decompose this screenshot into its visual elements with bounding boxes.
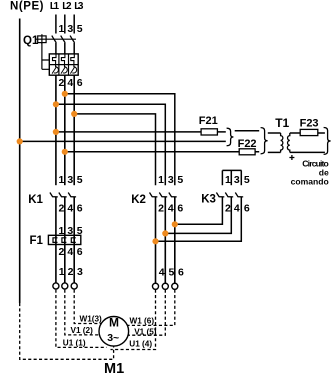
Q1 contact pole 2 — [61, 36, 65, 43]
wire K2 pole2 out — [164, 197, 166, 283]
terminal circle 6 — [172, 283, 178, 289]
svg-text:5: 5 — [244, 174, 250, 186]
fuse F22 — [239, 149, 255, 155]
wire K1 pole3 out — [73, 197, 75, 283]
wire phase3 vertical — [73, 75, 75, 185]
wire tap phase1 to K2 pole2 — [56, 104, 165, 185]
Q1 operator drop — [42, 43, 49, 70]
wire control top segment — [235, 130, 260, 132]
svg-text:K2: K2 — [131, 194, 146, 206]
wire K2 pole1 out — [155, 197, 157, 283]
svg-text:3: 3 — [77, 266, 83, 278]
K1 contact pole 1 — [50, 193, 58, 197]
brace control option 1 — [227, 128, 234, 146]
Q1 operator box — [38, 36, 46, 43]
wire L2 drop — [64, 15, 66, 34]
wire K2 pole3 out — [174, 197, 176, 283]
K2 contact pole 1 — [150, 193, 158, 197]
cable W1(3) — [74, 290, 101, 324]
svg-text:1: 1 — [59, 266, 65, 278]
svg-text:6: 6 — [77, 246, 83, 258]
wire T1 secondary bottom — [290, 151, 325, 153]
svg-text:W1 (6): W1 (6) — [130, 316, 155, 325]
wire T1 secondary top — [290, 132, 325, 134]
svg-text:5: 5 — [77, 174, 83, 186]
cable PE to motor — [20, 303, 114, 359]
K1 contact pole 2 — [59, 193, 67, 197]
svg-text:5: 5 — [177, 174, 183, 186]
wire K3 stub 1 — [221, 170, 223, 185]
svg-text:1: 1 — [59, 23, 65, 35]
wire Q1 pole3 to release — [73, 43, 75, 54]
wire phase2 to F22 — [65, 151, 259, 153]
K3 contact pole 2 — [225, 193, 233, 197]
wire phase1 vertical — [55, 75, 57, 185]
Q1 thermal release pole 1 — [53, 54, 57, 67]
node N tap — [17, 138, 23, 144]
F1 heater element 1 — [53, 238, 58, 243]
wire K3 pole2 to K2 — [165, 197, 231, 234]
node K2-K3 junction b — [162, 230, 168, 236]
svg-text:K1: K1 — [28, 194, 43, 206]
svg-text:F22: F22 — [238, 138, 257, 150]
wire L1 drop — [55, 15, 57, 34]
svg-text:L1: L1 — [50, 1, 60, 12]
transformer T1 secondary coil — [287, 133, 289, 152]
wire T1 primary bottom — [268, 151, 281, 153]
wire Q1 pole2 to release — [64, 43, 66, 54]
svg-text:N(PE): N(PE) — [10, 0, 44, 12]
wire Q1 pole1 to release — [55, 43, 57, 54]
svg-text:V1 (2): V1 (2) — [71, 326, 94, 335]
node K2-K3 junction c — [152, 238, 158, 244]
terminal circle 1 — [53, 283, 59, 289]
wire L3 drop — [73, 15, 75, 34]
wire phase1 to F21 — [56, 131, 226, 133]
Q1 contact pole 3 — [70, 36, 75, 43]
K2 contact pole 2 — [159, 193, 167, 197]
overload relay F1 box — [48, 235, 80, 244]
svg-text:W1(3): W1(3) — [80, 314, 103, 323]
cable U1(4) — [111, 290, 156, 350]
wire N to control — [20, 140, 226, 142]
svg-text:3: 3 — [168, 174, 174, 186]
wire K1 pole1 out — [55, 197, 57, 283]
svg-text:2: 2 — [225, 202, 231, 214]
svg-text:5: 5 — [77, 23, 83, 35]
cable V1(2) — [65, 290, 100, 335]
svg-text:K3: K3 — [201, 193, 216, 205]
svg-text:U1 (1): U1 (1) — [63, 338, 86, 347]
brace control option 2 — [261, 128, 268, 154]
svg-text:T1: T1 — [275, 116, 289, 130]
Q1 thermal release pole 2 — [61, 54, 65, 67]
wire K1 pole2 out — [64, 197, 66, 283]
svg-text:6: 6 — [77, 202, 83, 214]
cable V1(5) — [127, 290, 165, 336]
svg-text:2: 2 — [59, 246, 65, 258]
polarity plus sign — [289, 155, 294, 160]
svg-text:2: 2 — [68, 266, 74, 278]
Q1 release unit frame — [49, 54, 78, 75]
Q1 operator cross vertical — [41, 34, 43, 44]
wire T1 primary top — [268, 132, 281, 134]
svg-text:V1 (5): V1 (5) — [134, 327, 157, 336]
svg-text:M1: M1 — [104, 361, 124, 377]
svg-text:4: 4 — [67, 77, 73, 89]
svg-text:3: 3 — [67, 23, 73, 35]
svg-text:4: 4 — [67, 246, 73, 258]
F1 heater element 3 — [71, 238, 76, 243]
wire K3 stub 2 — [230, 170, 232, 185]
svg-text:2: 2 — [59, 77, 65, 89]
wire K3 stub 3 — [240, 170, 242, 185]
node K2-K3 junction a — [172, 221, 178, 227]
Q1 magnetic release pole 3 — [70, 67, 76, 74]
motor M1 circle — [99, 317, 129, 347]
svg-text:4: 4 — [168, 202, 174, 214]
node tap phase3 — [71, 111, 77, 117]
svg-text:F23: F23 — [300, 117, 319, 129]
fuse F23 — [300, 129, 318, 135]
svg-text:1: 1 — [225, 174, 231, 186]
node tap phase1 — [53, 101, 59, 107]
terminal circle 5 — [162, 283, 168, 289]
svg-text:6: 6 — [178, 266, 184, 278]
wire tap phase2 to K2 pole3 — [65, 94, 175, 185]
node tap phase2 — [62, 91, 68, 97]
node F21 tap — [53, 129, 59, 135]
wire N(PE) vertical — [19, 19, 21, 304]
K2 contact pole 3 — [169, 193, 177, 197]
F1 heater element 2 — [62, 238, 67, 243]
svg-text:F1: F1 — [30, 235, 44, 247]
node F22 tap — [62, 149, 68, 155]
svg-text:4: 4 — [234, 202, 240, 214]
svg-text:3: 3 — [234, 174, 240, 186]
K3 contact pole 3 — [235, 193, 243, 197]
K1 contact pole 3 — [68, 193, 76, 197]
svg-text:2: 2 — [158, 202, 164, 214]
svg-text:F21: F21 — [199, 115, 218, 127]
terminal circle 3 — [71, 283, 77, 289]
svg-text:1: 1 — [59, 174, 65, 186]
svg-text:5: 5 — [169, 266, 175, 278]
wire K3 pole3 to K2 — [156, 197, 242, 241]
cable U1(1) — [56, 290, 107, 348]
svg-text:L2: L2 — [62, 1, 72, 12]
svg-text:U1 (4): U1 (4) — [129, 340, 152, 349]
terminal circle 4 — [152, 283, 158, 289]
svg-text:1: 1 — [158, 174, 164, 186]
cable W1(6) — [127, 290, 175, 326]
svg-text:3~: 3~ — [107, 332, 119, 344]
Q1 operator linkage — [36, 38, 76, 40]
transformer T1 primary coil — [281, 133, 283, 152]
Q1 magnetic release pole 2 — [61, 67, 67, 74]
svg-text:M: M — [109, 316, 119, 330]
wire K3 pole1 to K2 — [175, 197, 223, 224]
svg-text:6: 6 — [177, 202, 183, 214]
Q1 thermal release pole 3 — [71, 54, 75, 67]
wire phase2 vertical — [64, 75, 66, 185]
Q1 magnetic release pole 1 — [52, 67, 58, 74]
brace control option 3 — [324, 128, 331, 155]
svg-text:6: 6 — [244, 202, 250, 214]
fuse F21 — [201, 129, 217, 135]
wire tap phase3 to K2 pole1 — [74, 114, 155, 185]
K3 contact pole 1 — [216, 193, 224, 197]
svg-text:4: 4 — [159, 266, 165, 278]
svg-text:3: 3 — [67, 174, 73, 186]
svg-text:comando: comando — [291, 176, 329, 186]
svg-text:6: 6 — [77, 77, 83, 89]
svg-text:4: 4 — [67, 202, 73, 214]
svg-text:2: 2 — [59, 202, 65, 214]
terminal circle 2 — [62, 283, 68, 289]
svg-text:Q1: Q1 — [23, 35, 39, 47]
svg-text:L3: L3 — [74, 1, 84, 12]
K3 star point bridge — [222, 169, 241, 171]
Q1 contact pole 1 — [52, 36, 57, 43]
